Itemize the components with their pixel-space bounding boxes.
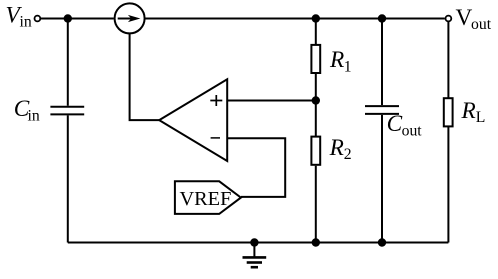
wire bottom rail [68,242,449,244]
wire Cout bottom [381,115,383,243]
svg-text:V: V [456,5,473,31]
resistor R1 [311,45,320,73]
capacitor Cin [50,107,84,115]
svg-text:C: C [387,111,403,137]
node Vin terminal [35,16,41,22]
svg-text:R: R [329,135,344,161]
ground [243,243,267,268]
svg-text:out: out [402,123,423,140]
svg-text:in: in [20,14,32,31]
label Cin [14,96,40,124]
svg-text:R: R [461,98,476,124]
junction dot Cout bottom [378,238,386,246]
label Vin [6,3,32,31]
wire op-amp plus input [227,100,316,102]
label R2 [329,135,352,163]
wire RL bottom [447,126,449,242]
capacitor Cout [365,106,399,114]
resistor R2 [311,137,320,165]
junction dot at R1 top [312,14,320,22]
svg-text:1: 1 [344,58,352,75]
wire R1 to R2 [315,74,317,137]
svg-text:in: in [28,107,40,124]
junction dot R1-R2 node [312,96,320,104]
junction dot ground [250,238,258,246]
wire top right segment [145,18,444,20]
resistor RL [444,98,453,126]
current source U1 [115,3,145,33]
label R1 [329,47,352,75]
wire left vertical lower (Cin bottom) [67,115,69,242]
op-amp U2 [159,79,227,161]
label RL [461,98,486,126]
junction dot at Cout top [378,14,386,22]
wire op-amp minus input to VREF [227,138,285,197]
wire RL top [447,22,449,98]
svg-text:out: out [471,16,492,33]
wire top left segment [41,18,114,20]
label Vout [456,5,492,33]
wire Cout top [381,19,383,106]
junction dot R2 bottom [312,238,320,246]
svg-text:L: L [476,109,486,126]
wire R2 bottom [315,166,317,243]
label Cout [387,111,423,140]
node Vout terminal [446,16,452,22]
VREF reference [175,181,241,214]
svg-text:R: R [329,47,344,73]
svg-text:2: 2 [344,146,352,163]
svg-text:VREF: VREF [180,188,232,210]
junction dot at Cin top [64,14,72,22]
wire R1 top [315,19,317,45]
wire current source to op-amp output [130,34,160,121]
wire left vertical upper (Cin top) [67,19,69,106]
